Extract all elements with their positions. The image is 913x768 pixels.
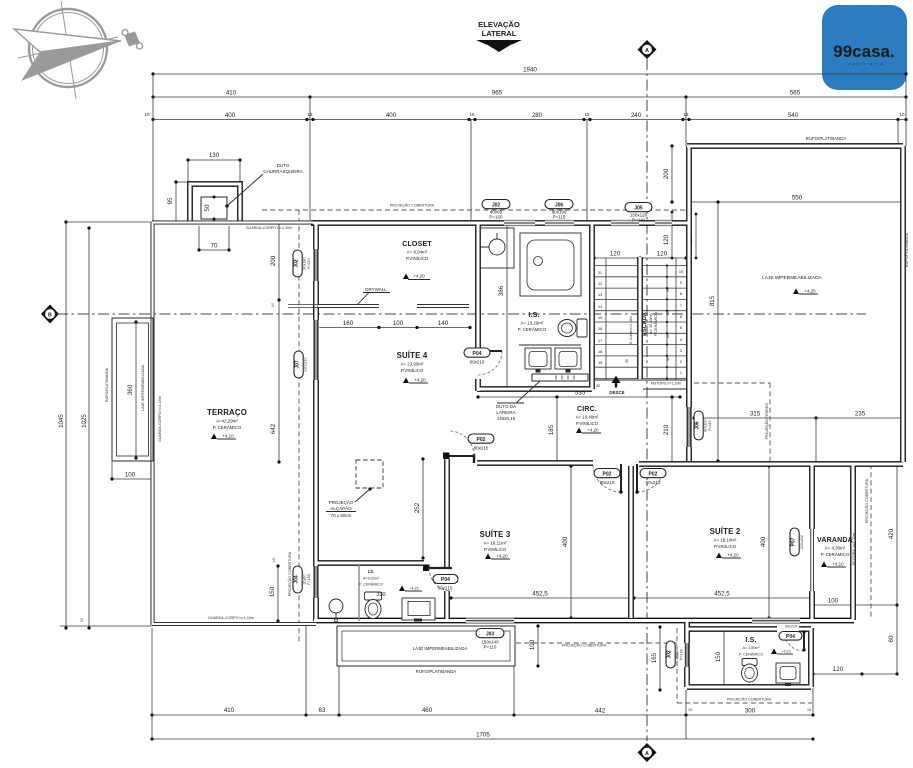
top dimension extension lines	[153, 74, 906, 222]
window pill J04 lower IS west	[293, 566, 311, 593]
roof projection dashed line right	[870, 464, 872, 618]
svg-text:J06: J06	[555, 202, 564, 208]
lower IS toilet	[365, 592, 382, 619]
svg-text:RUFO/PLATIBANDA: RUFO/PLATIBANDA	[416, 669, 457, 674]
svg-text:815: 815	[709, 295, 716, 306]
stair 30 tread labels	[625, 288, 670, 363]
svg-text:100: 100	[529, 639, 536, 650]
svg-text:CLOSET: CLOSET	[402, 241, 432, 248]
svg-text:B: B	[48, 312, 52, 318]
drywall label	[357, 287, 390, 305]
alcapao dashed square	[355, 460, 383, 502]
svg-text:DRYWALL: DRYWALL	[365, 287, 387, 292]
svg-text:P=150: P=150	[307, 574, 311, 585]
window top wall J06	[545, 220, 574, 226]
svg-text:TERRAÇO: TERRAÇO	[207, 408, 247, 417]
svg-text:J07: J07	[295, 360, 301, 369]
dimension 130 churrasqueira	[186, 152, 241, 182]
svg-text:120: 120	[663, 234, 670, 245]
svg-text:10: 10	[899, 112, 905, 117]
svg-text:PROJEÇÃO: PROJEÇÃO	[329, 499, 354, 505]
dimension 185	[548, 395, 559, 465]
slab label top right LAJE IMPERMEABILIZADA	[762, 275, 823, 281]
svg-text:P02: P02	[477, 437, 486, 443]
svg-text:P.VINÍLICO: P.VINÍLICO	[406, 256, 429, 261]
svg-text:P04: P04	[473, 351, 482, 357]
svg-text:P. CERÂMICO: P. CERÂMICO	[359, 582, 383, 587]
svg-text:11: 11	[598, 270, 602, 275]
dimension 120 bottom right	[811, 666, 863, 676]
dimension 165 bottom	[651, 625, 662, 691]
svg-text:130: 130	[209, 152, 220, 159]
svg-text:J02: J02	[492, 202, 501, 208]
svg-text:15: 15	[807, 708, 811, 712]
svg-text:P02: P02	[649, 471, 658, 477]
alcapao label	[326, 499, 356, 518]
ground floor projection dashed rectangle	[694, 383, 770, 461]
svg-text:3: 3	[680, 348, 682, 353]
svg-text:1025: 1025	[81, 414, 88, 428]
svg-text:P04: P04	[441, 577, 450, 583]
room label VARANDA	[817, 537, 853, 557]
level marker terraco +4,10	[211, 434, 236, 440]
svg-text:366: 366	[498, 285, 505, 296]
svg-text:80x210: 80x210	[474, 446, 489, 451]
level marker closet +4,20	[403, 274, 430, 280]
stair step numbers right flight	[679, 269, 684, 375]
elevation arrow label ELEVACAO LATERAL	[476, 20, 522, 52]
bottom right IS vanity	[776, 663, 800, 686]
heavy walls	[190, 146, 903, 687]
svg-text:J06: J06	[695, 421, 701, 430]
bottom extension lines	[152, 625, 813, 739]
svg-text:P.VINÍLICO: P.VINÍLICO	[401, 368, 424, 373]
svg-text:P=150: P=150	[680, 649, 684, 660]
svg-text:+4,10: +4,10	[781, 650, 790, 654]
svg-text:+4,20: +4,20	[587, 428, 599, 433]
svg-text:1705: 1705	[476, 732, 490, 739]
window pill J06 stair hall east	[694, 411, 712, 440]
svg-text:165: 165	[651, 652, 658, 663]
door pill P07 varanda	[790, 528, 804, 556]
dimension 100 varanda	[811, 598, 854, 607]
svg-text:P.VINÍLICO: P.VINÍLICO	[576, 421, 599, 426]
svg-text:19: 19	[598, 360, 602, 365]
svg-text:+4,20: +4,20	[413, 274, 425, 279]
svg-text:400: 400	[562, 536, 569, 547]
level marker suite 4 +4,20	[403, 378, 428, 384]
svg-text:+4,10: +4,10	[832, 562, 844, 567]
svg-text:A= 18,10m²: A= 18,10m²	[714, 538, 737, 543]
svg-text:LAJE IMPERMEABILIZADA: LAJE IMPERMEABILIZADA	[141, 365, 145, 411]
svg-text:A= 8,04m²: A= 8,04m²	[407, 250, 428, 255]
svg-text:PROJEÇÃO COBERTURA: PROJEÇÃO COBERTURA	[390, 203, 435, 208]
dimension 535 circulation	[476, 390, 681, 399]
fireplace duct label	[496, 381, 540, 421]
window pill J01 closet west	[293, 250, 311, 277]
bottom slab rectangle	[337, 626, 515, 674]
door P02 suite 3 leaf and swing	[593, 464, 623, 494]
dimension 120 vertical stairs right	[663, 211, 673, 260]
svg-text:540: 540	[788, 112, 799, 119]
dimension 120 vertical stairs right second	[687, 213, 697, 260]
svg-text:SUÍTE 2: SUÍTE 2	[710, 527, 741, 536]
svg-text:8: 8	[680, 291, 682, 296]
svg-text:80x100: 80x100	[704, 419, 708, 431]
svg-text:30: 30	[666, 334, 670, 338]
svg-text:60x210: 60x210	[785, 625, 797, 629]
svg-text:+4,20: +4,20	[727, 553, 739, 558]
stair landing edge	[594, 380, 686, 389]
svg-text:PROJEÇÃO TERREO: PROJEÇÃO TERREO	[764, 403, 769, 440]
99casa logo	[822, 5, 907, 90]
room label CIRC	[576, 406, 599, 426]
svg-text:452,5: 452,5	[532, 591, 548, 598]
svg-text:ALÇAPÃO: ALÇAPÃO	[330, 505, 352, 511]
svg-text:15: 15	[272, 558, 276, 562]
svg-text:LAREIRA: LAREIRA	[496, 410, 515, 415]
left extension lines	[60, 222, 152, 626]
window pill J02 bottom right IS west	[666, 641, 684, 668]
dimension 420 right	[853, 462, 899, 674]
room label SUITE 4	[397, 351, 428, 373]
svg-text:150: 150	[715, 651, 722, 662]
drywall dim extension	[288, 305, 318, 308]
svg-text:17: 17	[598, 338, 602, 343]
svg-text:S. Curva h=1,18m: S. Curva h=1,18m	[629, 316, 633, 344]
svg-text:13: 13	[598, 292, 602, 297]
svg-text:RUFO/PLATIBANDA: RUFO/PLATIBANDA	[806, 136, 847, 141]
window west wall suite 4	[313, 320, 320, 380]
svg-text:220x210: 220x210	[304, 357, 308, 371]
bottom dimension row 1705	[150, 732, 814, 741]
level marker varanda +4,10	[821, 562, 846, 568]
stair DESCE arrow	[609, 376, 624, 396]
shower box top IS	[520, 233, 581, 296]
svg-text:P02: P02	[603, 471, 612, 477]
window top wall stairs small	[655, 220, 672, 226]
window west wall bottom right IS	[684, 643, 690, 667]
svg-text:P. CERÂMICO: P. CERÂMICO	[821, 552, 850, 557]
svg-text:400: 400	[760, 536, 767, 547]
svg-text:A: A	[645, 751, 649, 757]
fireplace duct	[532, 374, 588, 381]
compass key icon	[122, 30, 143, 50]
stair treads left flight	[594, 266, 637, 379]
door P04 top IS leaf and swing	[464, 348, 502, 375]
stair treads right flight	[643, 266, 686, 379]
door P02 suite 4 leaf and swing	[443, 431, 494, 459]
svg-text:+4,20: +4,20	[414, 378, 426, 383]
svg-text:15: 15	[598, 315, 602, 320]
bottom right IS toilet	[742, 659, 758, 683]
svg-text:10: 10	[271, 303, 275, 307]
svg-text:15: 15	[584, 112, 590, 117]
svg-text:CHURRASQUEIRA: CHURRASQUEIRA	[263, 169, 303, 174]
dimension 315	[692, 411, 817, 420]
light walls railings and drywall	[152, 222, 469, 625]
wall jog at suite 4 door	[473, 454, 475, 463]
window pill J02	[482, 200, 510, 220]
svg-text:PEITORIL h=1,10m: PEITORIL h=1,10m	[651, 382, 682, 386]
svg-text:400: 400	[386, 112, 397, 119]
svg-text:120: 120	[657, 251, 668, 258]
dimension 70 churrasqueira	[197, 226, 230, 252]
svg-text:70 x 80cm: 70 x 80cm	[331, 513, 352, 518]
svg-text:DESCE: DESCE	[609, 390, 624, 395]
svg-text:63: 63	[319, 707, 326, 714]
left dimension 1025	[81, 226, 91, 629]
svg-text:RUFO/PLATIBANDA: RUFO/PLATIBANDA	[905, 232, 909, 267]
svg-text:PROJEÇÃO COBERTURA: PROJEÇÃO COBERTURA	[864, 478, 869, 523]
svg-text:VARANDA: VARANDA	[817, 537, 853, 544]
section marker B left	[41, 305, 59, 324]
room label CLOSET	[402, 241, 432, 261]
svg-text:1: 1	[680, 370, 682, 375]
svg-text:235: 235	[855, 411, 866, 418]
window south wall J03	[466, 618, 514, 624]
window west wall lower IS	[313, 566, 320, 598]
bottom dimension row 410/63/460/442/300	[150, 707, 814, 717]
section line A-A vertical	[646, 59, 648, 741]
svg-text:P=110: P=110	[307, 258, 311, 269]
svg-text:P. CERÂMICO: P. CERÂMICO	[213, 425, 242, 430]
svg-text:A: A	[645, 48, 649, 54]
svg-text:452,5: 452,5	[714, 591, 730, 598]
room label SUITE 2	[710, 527, 741, 549]
right wing dimension 200	[663, 144, 674, 203]
svg-text:360: 360	[127, 384, 134, 395]
svg-text:965: 965	[492, 90, 503, 97]
roof projection dashed line bottom center	[516, 642, 677, 644]
window pill J05	[625, 203, 652, 223]
section marker A bottom	[638, 743, 657, 762]
svg-text:1045: 1045	[58, 414, 65, 428]
svg-text:99casa.: 99casa.	[833, 42, 894, 61]
svg-text:315: 315	[750, 411, 761, 418]
svg-text:A= 18,11m²: A= 18,11m²	[484, 541, 507, 546]
svg-text:420: 420	[888, 528, 895, 539]
door P04 lower IS leaf and swing	[423, 565, 458, 592]
room label IS lower	[359, 569, 386, 598]
churrasqueira duct inner square	[201, 196, 227, 221]
svg-text:i m o b i l i a r i a: i m o b i l i a r i a	[845, 62, 884, 66]
lower IS shower box	[402, 598, 435, 622]
svg-text:P=110: P=110	[632, 218, 645, 223]
level marker IS lower +4,20	[399, 586, 422, 592]
dimension 360 terraco slab	[127, 320, 138, 459]
svg-text:A= 10,49m²: A= 10,49m²	[576, 415, 599, 420]
svg-text:100: 100	[393, 320, 404, 327]
svg-text:SUÍTE 3: SUÍTE 3	[480, 530, 511, 539]
svg-text:100: 100	[125, 472, 136, 479]
svg-text:PROJEÇÃO COBERTURA: PROJEÇÃO COBERTURA	[562, 643, 607, 648]
svg-text:J02: J02	[294, 259, 300, 268]
svg-text:252: 252	[414, 502, 421, 513]
svg-text:LATERAL: LATERAL	[482, 29, 517, 38]
svg-text:140x0,15: 140x0,15	[497, 416, 516, 421]
dimension 366 bathroom	[498, 221, 509, 390]
svg-text:642: 642	[270, 423, 277, 434]
svg-text:I.S.: I.S.	[368, 569, 375, 574]
svg-text:RUFO/PLATIBANDA: RUFO/PLATIBANDA	[105, 367, 109, 402]
lower IS glass divider	[358, 564, 360, 621]
svg-text:+4,20: +4,20	[496, 554, 508, 559]
svg-text:PROJEÇÃO COBERTURA: PROJEÇÃO COBERTURA	[727, 697, 772, 702]
dimension 452,5 suite 3	[449, 591, 631, 600]
svg-text:70: 70	[211, 243, 218, 250]
svg-text:30: 30	[666, 357, 670, 361]
roof projection dashed lines bottom right	[677, 628, 812, 703]
dimension 100 lower slab	[529, 624, 540, 667]
svg-text:GUARDA-CORPO h=1,10m: GUARDA-CORPO h=1,10m	[158, 396, 162, 442]
bathroom counter top IS	[480, 228, 514, 268]
svg-text:300: 300	[745, 708, 756, 715]
svg-text:30: 30	[666, 311, 670, 315]
svg-text:550: 550	[792, 195, 803, 202]
svg-text:DUTO DA: DUTO DA	[496, 404, 516, 409]
svg-text:442: 442	[595, 708, 606, 715]
svg-text:ELEVAÇÃO: ELEVAÇÃO	[478, 20, 520, 29]
toilet top IS	[558, 319, 587, 337]
level marker IS bottom right +4,10	[771, 649, 793, 655]
dimension row 1940	[151, 67, 907, 76]
svg-text:PROJEÇÃO COBERTURA: PROJEÇÃO COBERTURA	[287, 551, 292, 596]
roof projection dashed line left vertical	[298, 210, 300, 642]
svg-text:2: 2	[680, 359, 682, 364]
level marker circ +4,20	[576, 428, 601, 434]
window top wall J02	[504, 220, 535, 226]
svg-text:80x210: 80x210	[646, 480, 661, 485]
svg-text:J05: J05	[634, 205, 643, 211]
svg-text:90x180: 90x180	[303, 257, 307, 269]
svg-text:18: 18	[598, 349, 602, 354]
svg-text:P. CERÂMICO: P. CERÂMICO	[739, 652, 763, 657]
room label IS bottom right	[739, 637, 763, 657]
svg-text:410: 410	[226, 90, 237, 97]
left dimension 1045	[58, 220, 68, 629]
svg-text:160: 160	[343, 320, 354, 327]
svg-text:7: 7	[680, 303, 682, 308]
svg-text:60x210: 60x210	[438, 586, 453, 591]
svg-text:P04: P04	[786, 634, 795, 640]
stair tread tick dimension column	[666, 264, 668, 379]
dimension 95 churrasqueira	[167, 180, 190, 223]
svg-text:120: 120	[833, 666, 844, 673]
dimension 150/15 lower IS	[269, 558, 280, 623]
window pill J07 suite 4 west	[294, 351, 308, 378]
svg-text:565: 565	[790, 90, 801, 97]
svg-text:I.S.: I.S.	[528, 312, 539, 319]
svg-text:140: 140	[438, 320, 449, 327]
svg-text:16: 16	[598, 326, 602, 331]
stair label ESCADA	[629, 312, 658, 344]
dimension 160/100/140 closet drywall	[316, 320, 471, 329]
svg-text:6: 6	[680, 314, 682, 319]
svg-text:150: 150	[269, 586, 276, 597]
svg-text:CIRC.: CIRC.	[577, 406, 597, 413]
svg-text:460: 460	[422, 707, 433, 714]
svg-text:LAJE IMPERMEABILIZADA: LAJE IMPERMEABILIZADA	[762, 275, 823, 281]
dimension 200/10/642 terraco	[270, 220, 281, 463]
svg-text:410: 410	[224, 707, 235, 714]
svg-text:J03: J03	[486, 631, 495, 637]
room label IS top	[518, 312, 547, 332]
window pill J06	[545, 200, 573, 220]
section line B-B horizontal	[57, 313, 866, 315]
svg-text:+4,20: +4,20	[804, 289, 816, 294]
dimension 150 bottom right IS	[715, 627, 726, 688]
svg-text:280: 280	[532, 112, 543, 119]
svg-text:185: 185	[548, 424, 555, 435]
svg-text:A=42,29m²: A=42,29m²	[216, 419, 238, 424]
terraco slab rectangle	[105, 318, 153, 461]
dimension 100 terraco slab	[110, 462, 154, 481]
level marker suite 3 +4,20	[485, 554, 510, 560]
window east wall J06 stair hall	[686, 407, 693, 447]
dimension 60 right	[888, 603, 899, 675]
room label TERRACO	[207, 408, 247, 430]
svg-text:5: 5	[680, 325, 682, 330]
svg-text:P=110: P=110	[484, 645, 497, 650]
svg-text:P07: P07	[791, 537, 797, 546]
svg-text:SUÍTE 4: SUÍTE 4	[397, 351, 428, 360]
svg-text:220x210: 220x210	[800, 535, 804, 549]
svg-text:A=4,93m²: A=4,93m²	[363, 577, 380, 581]
svg-text:J02: J02	[667, 650, 673, 659]
svg-text:30x60: 30x60	[303, 574, 307, 584]
svg-text:12: 12	[598, 281, 602, 286]
svg-text:50: 50	[204, 204, 211, 211]
svg-text:P.VINÍLICO: P.VINÍLICO	[484, 547, 507, 552]
svg-text:J04: J04	[294, 575, 300, 584]
svg-text:10: 10	[144, 112, 150, 117]
window west wall closet	[313, 249, 320, 281]
dimension row 400/15/400/15/280/15/240/15/540/10	[144, 112, 907, 121]
svg-text:330: 330	[376, 592, 385, 598]
dimension 400 suite 2	[760, 464, 771, 619]
svg-text:P=150: P=150	[489, 215, 503, 220]
svg-text:10: 10	[80, 618, 84, 622]
section marker A top	[638, 40, 657, 59]
svg-text:95: 95	[167, 197, 174, 204]
svg-text:P=110: P=110	[708, 420, 712, 431]
svg-text:15: 15	[688, 708, 692, 712]
dimension 252	[414, 457, 425, 559]
svg-text:1940: 1940	[523, 67, 537, 74]
svg-text:30: 30	[666, 288, 670, 292]
level marker suite 2 +4,20	[716, 553, 741, 559]
door P04 bottom right IS leaf and swing	[779, 625, 806, 652]
svg-text:240: 240	[631, 112, 642, 119]
svg-text:210: 210	[663, 424, 670, 435]
window top wall J05	[611, 220, 639, 226]
churrasqueira duct label	[225, 163, 302, 208]
roof projection dashed line top	[262, 209, 687, 211]
svg-text:400: 400	[225, 112, 236, 119]
dimension 235	[816, 411, 906, 463]
double vanity top IS	[519, 345, 581, 373]
svg-text:A= 10,26m²: A= 10,26m²	[521, 321, 544, 326]
svg-text:60x210: 60x210	[470, 360, 485, 365]
svg-text:P=110: P=110	[553, 215, 566, 220]
svg-text:A= 4,50m²: A= 4,50m²	[742, 646, 760, 650]
sliding door varanda suite 2	[811, 529, 814, 591]
svg-text:A= 23,90m²: A= 23,90m²	[401, 362, 424, 367]
svg-text:9: 9	[680, 280, 682, 285]
svg-text:100: 100	[828, 598, 839, 605]
svg-text:200: 200	[663, 168, 670, 179]
